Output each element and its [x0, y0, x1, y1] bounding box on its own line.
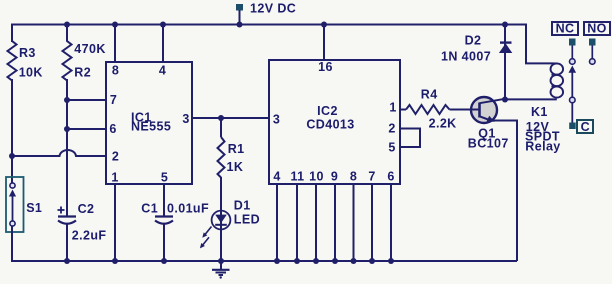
- svg-text:IC2: IC2: [317, 104, 338, 118]
- node pin9 ground: [332, 258, 338, 264]
- wire IC2 bottom pin 9: [334, 184, 336, 261]
- svg-text:7: 7: [110, 93, 117, 107]
- node pin4 on rail: [160, 22, 166, 28]
- wire pin 4: [162, 25, 164, 63]
- svg-text:8: 8: [350, 170, 357, 184]
- wire R4 to Q1 base: [450, 109, 480, 111]
- wire R1 to LED: [220, 177, 222, 211]
- node left rail / pin2 junction: [9, 153, 15, 159]
- svg-text:BC107: BC107: [468, 137, 509, 151]
- node switch arm pivot: [570, 97, 576, 103]
- wire R2 bottom down to C2: [66, 79, 68, 216]
- wire IC2 bottom pin 6: [390, 184, 392, 261]
- svg-text:3: 3: [182, 112, 189, 126]
- svg-text:C2: C2: [78, 202, 95, 216]
- wire NC contact stub: [571, 46, 573, 59]
- svg-text:R3: R3: [19, 46, 36, 60]
- svg-text:12V DC: 12V DC: [250, 2, 296, 16]
- resistor R4: [406, 88, 457, 131]
- node LED ground junction: [218, 258, 224, 264]
- svg-text:5: 5: [388, 141, 395, 155]
- svg-text:6: 6: [109, 122, 116, 136]
- wire IC2 bottom pin 10: [315, 184, 317, 261]
- svg-text:470K: 470K: [74, 42, 105, 56]
- wire D2 branch: [504, 25, 506, 100]
- wire IC2 bottom pin 8: [353, 184, 355, 261]
- touch plate S1: [6, 177, 42, 232]
- svg-text:R1: R1: [228, 142, 245, 156]
- node pin16 on rail: [321, 22, 327, 28]
- ground symbol: [212, 261, 230, 279]
- terminal label NO: [584, 22, 610, 36]
- svg-text:K1: K1: [531, 105, 548, 119]
- svg-text:1N 4007: 1N 4007: [441, 49, 491, 63]
- svg-text:R2: R2: [74, 66, 91, 80]
- svg-text:D1: D1: [234, 199, 251, 213]
- svg-text:NE555: NE555: [131, 120, 171, 134]
- wire pin 5 down: [163, 184, 165, 216]
- wire IC2 bottom pin 7: [371, 184, 373, 261]
- wire R1 top lead: [220, 118, 222, 137]
- node pin7 junction: [64, 97, 70, 103]
- svg-text:5: 5: [161, 171, 168, 185]
- svg-text:CD4013: CD4013: [306, 118, 354, 132]
- svg-text:1: 1: [111, 171, 118, 185]
- terminal square common: [569, 123, 576, 130]
- node NO contact: [590, 59, 596, 65]
- node R1 top junction: [218, 115, 224, 121]
- LED D1: [200, 199, 260, 261]
- svg-text:16: 16: [318, 60, 333, 74]
- node pin4 ground: [274, 258, 280, 264]
- wire IC2 bottom pin 4: [276, 184, 278, 261]
- node NC contact: [570, 59, 576, 65]
- wire +12V top rail: [12, 24, 526, 26]
- terminal label C: [577, 120, 593, 134]
- svg-text:8: 8: [112, 64, 119, 78]
- wire arm to common: [571, 103, 573, 123]
- wire C2 to ground rail: [66, 224, 68, 261]
- wire ground bottom rail: [11, 260, 517, 262]
- svg-text:2.2uF: 2.2uF: [72, 228, 107, 242]
- node pin10 ground: [313, 258, 319, 264]
- resistor R2: [63, 25, 106, 81]
- node pin8 on rail: [112, 22, 118, 28]
- node pin11 ground: [294, 258, 300, 264]
- wire coil bottom to collector node: [505, 98, 557, 100]
- terminal square NC: [569, 39, 576, 46]
- node R2 top on rail: [64, 22, 70, 28]
- wire pin 7 stub: [67, 99, 106, 101]
- svg-text:10: 10: [309, 170, 324, 184]
- svg-text:C: C: [581, 120, 590, 134]
- svg-text:1K: 1K: [227, 160, 244, 174]
- capacitor C1: [141, 202, 209, 224]
- wire pin 1 to ground: [114, 184, 116, 261]
- wire pins 2-5 tie bracket: [400, 129, 420, 148]
- node pin8 ground: [351, 258, 357, 264]
- capacitor C2: [58, 202, 107, 242]
- svg-text:2: 2: [112, 150, 119, 164]
- timer IC1 NE555 body: [106, 62, 192, 185]
- svg-text:LED: LED: [234, 212, 260, 226]
- node C2 ground: [64, 258, 70, 264]
- resistor R1: [218, 137, 245, 178]
- svg-text:4: 4: [159, 64, 166, 78]
- terminal label NC: [552, 22, 578, 36]
- wire NO contact stub: [591, 46, 593, 59]
- svg-text:11: 11: [290, 170, 304, 184]
- svg-text:3: 3: [273, 113, 280, 127]
- svg-text:6: 6: [387, 170, 394, 184]
- svg-text:2.2K: 2.2K: [429, 117, 457, 131]
- flip-flop IC2 CD4013 body: [269, 60, 400, 184]
- svg-text:0.01uF: 0.01uF: [167, 202, 209, 216]
- svg-text:4: 4: [273, 170, 280, 184]
- relay switch arm with arrow: [569, 66, 577, 98]
- node pin6 ground: [388, 258, 394, 264]
- wire Q1 emitter to ground rail: [493, 121, 517, 262]
- node pin6 junction: [64, 126, 70, 132]
- svg-text:NC: NC: [556, 22, 575, 36]
- diode D2 1N4007: [441, 34, 512, 64]
- svg-text:2: 2: [388, 122, 395, 136]
- wire C1 to ground rail: [163, 224, 165, 261]
- wire IC2 bottom pin 11: [296, 184, 298, 261]
- resistor R3: [8, 41, 43, 81]
- svg-text:C1: C1: [141, 202, 158, 216]
- node D2 top on rail: [502, 22, 508, 28]
- node collector coil junction: [502, 97, 508, 103]
- wire pin 16: [323, 25, 325, 61]
- wire left rail bottom segment: [11, 226, 13, 262]
- wire left rail to S1: [11, 79, 13, 183]
- svg-text:9: 9: [331, 170, 338, 184]
- wire pin 3 IC1 to IC2: [192, 117, 269, 119]
- svg-text:Relay: Relay: [525, 139, 560, 153]
- svg-text:NO: NO: [587, 22, 607, 36]
- wire IC2 pin 1 to R4: [400, 109, 406, 111]
- svg-text:1: 1: [389, 101, 396, 115]
- node pin1 ground: [112, 258, 118, 264]
- relay coil K1: [525, 63, 563, 153]
- svg-text:R4: R4: [421, 88, 438, 102]
- wire left rail upper segment: [11, 24, 13, 43]
- power source marker 12V DC: [236, 2, 296, 28]
- svg-text:D2: D2: [465, 34, 482, 48]
- svg-text:10K: 10K: [19, 66, 43, 80]
- wire top rail corner to coil: [526, 24, 554, 64]
- node pin7 ground: [369, 258, 375, 264]
- node C1 ground: [161, 258, 167, 264]
- wire pin 2 with hop over: [11, 150, 106, 156]
- terminal square NO: [589, 39, 596, 46]
- wire pin 8: [114, 25, 116, 63]
- svg-text:7: 7: [368, 170, 375, 184]
- wire pin 6 stub: [67, 128, 106, 130]
- transistor Q1 BC107: [468, 97, 509, 151]
- svg-text:S1: S1: [26, 201, 42, 215]
